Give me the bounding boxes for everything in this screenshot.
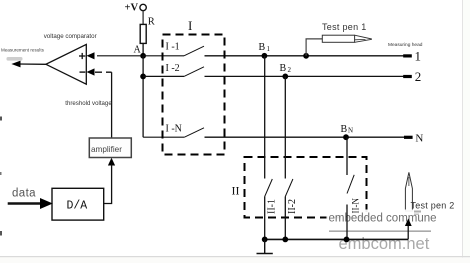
svg-text:2: 2 [415, 69, 422, 84]
switch I-N lever [184, 128, 204, 137]
wire bus up to test pen 2 with arrow [405, 219, 412, 240]
svg-text:B: B [280, 63, 287, 74]
svg-text:embedded commune: embedded commune [329, 213, 437, 225]
svg-text:D/A: D/A [67, 199, 88, 212]
D/A box [52, 188, 104, 220]
test pen 1 wire [303, 39, 322, 59]
svg-text:+V: +V [125, 3, 139, 14]
wire B1 down to switch II-1 [264, 56, 266, 179]
switch II-1 bottom wire [264, 197, 266, 240]
left edge artifacts [0, 117, 2, 236]
thick data arrow [8, 198, 53, 209]
wire node A down to I-2 feed [142, 56, 144, 137]
svg-text:threshold voltage: threshold voltage [65, 100, 112, 107]
node B2 [280, 63, 292, 79]
amplifier box [89, 138, 131, 158]
svg-text:voltage comparator: voltage comparator [44, 33, 97, 40]
svg-text:A: A [134, 45, 142, 56]
resistor R [140, 17, 155, 44]
right page edge faint line [463, 0, 470, 263]
svg-text:R: R [148, 17, 155, 28]
switch I-N row: feed wire [143, 136, 184, 138]
wire node A to comparator plus input [97, 55, 141, 57]
bottom page divider [0, 257, 470, 263]
svg-text:Measuring head: Measuring head [388, 42, 423, 48]
output wire with arrow (measurement results) [11, 61, 46, 68]
svg-text:I: I [188, 18, 192, 33]
switch II-2 bottom wire [284, 197, 286, 240]
svg-text:1: 1 [267, 45, 271, 53]
test pen 2 body [405, 172, 412, 211]
terminal 2 [403, 69, 421, 84]
ground bus [262, 237, 408, 243]
svg-text:1: 1 [415, 49, 422, 64]
svg-text:I -N: I -N [166, 124, 182, 135]
switch II-N lever [347, 175, 354, 194]
dashed wire threshold voltage to minus input [95, 71, 112, 73]
switch II-N bottom wire [346, 205, 348, 240]
svg-text:II-1: II-1 [267, 199, 278, 214]
wire resistor to node A [142, 43, 144, 55]
svg-text:Test pen 2: Test pen 2 [411, 201, 455, 211]
dashed box I [163, 18, 225, 155]
terminal 1 [403, 49, 421, 64]
wire amplifier to minus input [111, 72, 113, 138]
svg-text:embcom.net: embcom.net [339, 235, 430, 253]
watermark remnant under test pen 2 [414, 211, 421, 216]
arrow into minus input [87, 68, 95, 75]
svg-text:II-N: II-N [350, 198, 360, 214]
wire line 2 to terminal [205, 75, 404, 77]
watermark smudge [7, 57, 23, 61]
svg-text:II-2: II-2 [287, 199, 298, 214]
wire line 1 to terminal [205, 55, 404, 57]
svg-text:I -2: I -2 [166, 63, 180, 74]
switch II-1 lever [265, 179, 273, 197]
switch I-1 lever [184, 46, 204, 56]
wire D/A to amplifier [104, 165, 112, 204]
switch II-2 lever [285, 179, 293, 197]
svg-text:data: data [12, 188, 36, 200]
svg-text:I -1: I -1 [166, 42, 180, 53]
svg-text:Measurement results: Measurement results [1, 48, 45, 53]
switch I-2 lever [184, 67, 204, 77]
junction node for I-2 feed [140, 74, 146, 80]
arrow into amplifier bottom [108, 158, 115, 166]
node A [134, 45, 147, 59]
wire BN down to switch II-N [346, 137, 348, 175]
dashed box II [232, 157, 367, 218]
svg-text:amplifier: amplifier [91, 145, 122, 154]
wire line N to terminal [205, 136, 405, 138]
arrow into plus input [87, 52, 95, 59]
test pen 1 body [322, 35, 372, 42]
svg-text:N: N [348, 127, 353, 135]
ground symbol [257, 239, 273, 253]
wire B2 down to switch II-2 [284, 76, 286, 178]
watermark embedded commune [327, 210, 437, 254]
switch I-1 row: left wire [143, 55, 184, 57]
svg-text:B: B [341, 124, 348, 135]
wire +V to resistor [142, 11, 144, 25]
switch I-2 row: feed wire [143, 75, 184, 77]
svg-text:Test pen 1: Test pen 1 [322, 22, 367, 32]
svg-text:II: II [232, 184, 240, 198]
svg-text:N: N [415, 133, 423, 145]
op-amp U1 voltage comparator [46, 44, 86, 84]
terminal N [404, 133, 423, 145]
svg-text:B: B [259, 42, 266, 53]
svg-text:2: 2 [288, 66, 292, 74]
power terminal +V [125, 3, 147, 14]
node B1 [259, 42, 271, 59]
node BN [341, 124, 354, 140]
